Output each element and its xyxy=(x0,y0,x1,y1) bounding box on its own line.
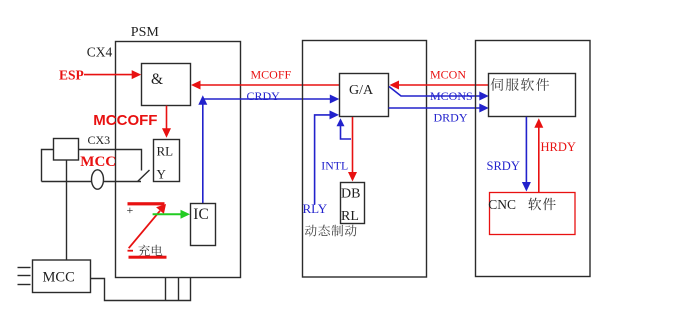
wire RLY blue into G/A xyxy=(315,115,332,205)
MCC contactor box xyxy=(33,260,91,293)
svg-text:+: + xyxy=(127,203,134,217)
MCC coil ellipse xyxy=(92,170,104,189)
wire CRDY blue from IC up and right to G/A xyxy=(202,99,204,203)
svg-text:&: & xyxy=(151,71,163,88)
wire MCOFF red from G/A to AND gate xyxy=(195,84,340,86)
svg-text:HRDY: HRDY xyxy=(541,140,576,154)
minus sign red xyxy=(128,250,134,252)
wire DRDY blue from G/A to servo soft xyxy=(389,107,483,109)
svg-text:MCC: MCC xyxy=(80,154,116,170)
wire MCC output to PSM bottom xyxy=(91,278,191,301)
svg-text:MCONS: MCONS xyxy=(430,89,473,103)
svg-text:CRDY: CRDY xyxy=(247,89,281,103)
CNC software box red xyxy=(490,193,576,235)
svg-text:DRDY: DRDY xyxy=(434,111,468,125)
svg-text:Y: Y xyxy=(157,167,167,182)
IC box xyxy=(191,204,216,246)
svg-text:SRDY: SRDY xyxy=(487,159,520,173)
wire INTL red from G/A down to DB RL xyxy=(352,117,354,176)
servo software box xyxy=(489,74,576,117)
3-phase input strokes xyxy=(18,267,31,269)
wire SRDY blue down to CNC soft xyxy=(525,117,527,185)
wire square to MCC box xyxy=(66,160,68,262)
wire to coil xyxy=(42,181,142,183)
charging diagonal arrow xyxy=(129,211,160,248)
label 伺服软件 xyxy=(491,78,504,91)
green arrow to IC xyxy=(153,213,183,215)
svg-text:MCCOFF: MCCOFF xyxy=(93,112,157,129)
wire MCON red from servo soft to G/A xyxy=(394,84,489,86)
svg-text:ESP: ESP xyxy=(59,68,84,83)
wire upper contact loop xyxy=(42,150,142,182)
charging bottom bar xyxy=(129,256,167,259)
relay RL Y box xyxy=(154,140,180,182)
svg-text:PSM: PSM xyxy=(131,25,160,40)
label 充电 xyxy=(138,245,150,257)
svg-text:RL: RL xyxy=(157,144,174,159)
G/A box xyxy=(340,74,389,117)
blue branch up-arrow at G/A bottom xyxy=(341,121,352,139)
svg-text:IC: IC xyxy=(193,206,209,223)
connector pins at PSM bottom xyxy=(165,278,167,301)
svg-text:CX3: CX3 xyxy=(88,133,111,147)
middle amplifier outer box xyxy=(303,41,427,278)
svg-text:INTL: INTL xyxy=(321,158,348,172)
svg-text:RL: RL xyxy=(341,209,359,224)
svg-text:MCOFF: MCOFF xyxy=(251,68,292,82)
label 动态制动 xyxy=(305,225,317,237)
svg-text:DB: DB xyxy=(341,187,360,202)
PSM outer box xyxy=(116,42,241,278)
charging sketch top bar xyxy=(128,202,165,205)
wire ESP arrow into AND gate xyxy=(84,74,134,76)
DB RL box xyxy=(341,183,365,224)
terminal square CX3 xyxy=(54,139,79,161)
svg-text:RLY: RLY xyxy=(303,201,328,216)
svg-text:MCC: MCC xyxy=(43,270,75,286)
svg-text:G/A: G/A xyxy=(349,83,374,98)
svg-text:MCON: MCON xyxy=(430,68,466,82)
switch blade xyxy=(138,170,150,181)
AND gate box xyxy=(142,64,191,106)
svg-text:CX4: CX4 xyxy=(87,45,113,60)
red MCCOFF arrow from AND gate down to relay RLY xyxy=(166,106,168,131)
svg-text:CNC: CNC xyxy=(488,197,516,212)
label 软件 xyxy=(528,198,541,211)
wire MCONS blue from G/A to servo soft xyxy=(389,87,482,97)
wire HRDY red up to servo soft xyxy=(538,124,540,193)
CNC outer box xyxy=(476,41,591,277)
